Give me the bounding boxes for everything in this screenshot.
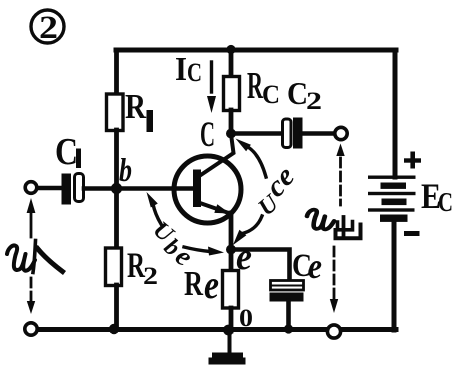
junction Ce/bottom (284, 324, 293, 333)
wire: left branch vertical (top rail to R1) (114, 50, 119, 96)
label: Chinese 'enter' glyph (33, 241, 63, 273)
capacitor C1 (62, 174, 84, 205)
label Ce (292, 246, 322, 286)
resistor R1 (107, 94, 124, 131)
terminal bottom-left (25, 323, 37, 335)
wire: input terminal to C1 (36, 186, 62, 191)
junction on top rail (226, 45, 235, 54)
svg-text:b: b (119, 153, 132, 189)
svg-text:C: C (287, 75, 308, 111)
svg-text:R: R (247, 65, 263, 107)
label RC (247, 65, 280, 109)
label Uce (rotated) (254, 159, 301, 221)
wire: RC to collector node C (229, 110, 234, 134)
resistor Re (223, 271, 239, 309)
current arrow IC (207, 62, 216, 113)
wire: Re to bottom rail (229, 308, 234, 331)
label: Chinese 'out' glyph (336, 217, 361, 238)
transistor emitter lead with arrow (200, 203, 230, 214)
output voltage arrow (down) (330, 247, 338, 313)
wire: R1 to node b to R2 (114, 130, 119, 249)
wire: right branch vertical (top) (393, 50, 398, 177)
label C1 (55, 131, 81, 173)
voltage arc Uce (C to e) (233, 139, 266, 246)
wire: C1 to base (84, 186, 193, 191)
output terminal (top) (335, 127, 347, 139)
node C junction (226, 129, 236, 139)
svg-text:C: C (55, 131, 78, 173)
label C2 (287, 75, 322, 115)
wire: node C to C2 (231, 131, 283, 136)
label u-in (script u) (7, 245, 35, 270)
resistor RC (224, 77, 240, 111)
svg-text:e: e (308, 246, 322, 286)
terminal bottom-right (output) (327, 325, 340, 338)
svg-text:C: C (200, 114, 215, 154)
input terminal (top-left) (25, 182, 37, 194)
wire: C2 to output terminal (302, 131, 335, 136)
label R2 (127, 245, 158, 290)
label Re (184, 262, 219, 307)
voltage arc Ube (b to e) (147, 192, 225, 256)
output voltage arrow (up) (336, 144, 344, 206)
svg-text:R: R (125, 87, 147, 126)
battery EC (368, 176, 416, 222)
svg-text:C: C (438, 187, 453, 217)
junction R2/bottom (109, 324, 119, 334)
transistor collector lead (200, 134, 234, 176)
svg-text:C: C (262, 80, 280, 109)
input voltage arrow (down) (27, 278, 35, 314)
battery plus sign (404, 152, 421, 169)
svg-text:I: I (175, 51, 187, 88)
wire: node e to Ce (231, 250, 290, 282)
ground (209, 331, 246, 365)
svg-text:2: 2 (306, 88, 322, 115)
svg-text:2: 2 (143, 263, 158, 290)
wire: top rail from R1 branch to right branch (116, 48, 396, 53)
label IC (175, 51, 202, 88)
transistor base bar (193, 170, 201, 208)
input voltage arrow (up) (27, 198, 36, 237)
wire: emitter to node e (229, 213, 234, 250)
wire: middle branch top (rail to RC) (229, 50, 234, 77)
wire: node e to Re (229, 250, 234, 272)
svg-text:C: C (187, 58, 202, 87)
label EC (421, 176, 453, 217)
label u-out (script u) (307, 210, 334, 230)
node e junction (226, 245, 236, 255)
junction Re/ground (223, 325, 234, 336)
battery minus sign (404, 231, 420, 236)
wire: Ce to bottom rail (286, 301, 291, 329)
svg-text:e: e (204, 262, 219, 307)
wire: R2 to bottom rail (114, 285, 119, 329)
svg-text:R: R (184, 264, 204, 303)
label R1 (125, 87, 153, 132)
wire: battery to bottom rail (392, 221, 397, 330)
resistor R2 (106, 248, 122, 286)
capacitor Ce (270, 281, 304, 302)
node b junction (111, 183, 122, 194)
capacitor C2 (283, 118, 303, 149)
figure number 2 (circled) (31, 10, 64, 46)
label Ube (rotated) (148, 217, 199, 273)
svg-text:2: 2 (39, 10, 58, 46)
transistor Q1 circle (174, 156, 241, 223)
wire: bottom rail (29, 327, 396, 332)
